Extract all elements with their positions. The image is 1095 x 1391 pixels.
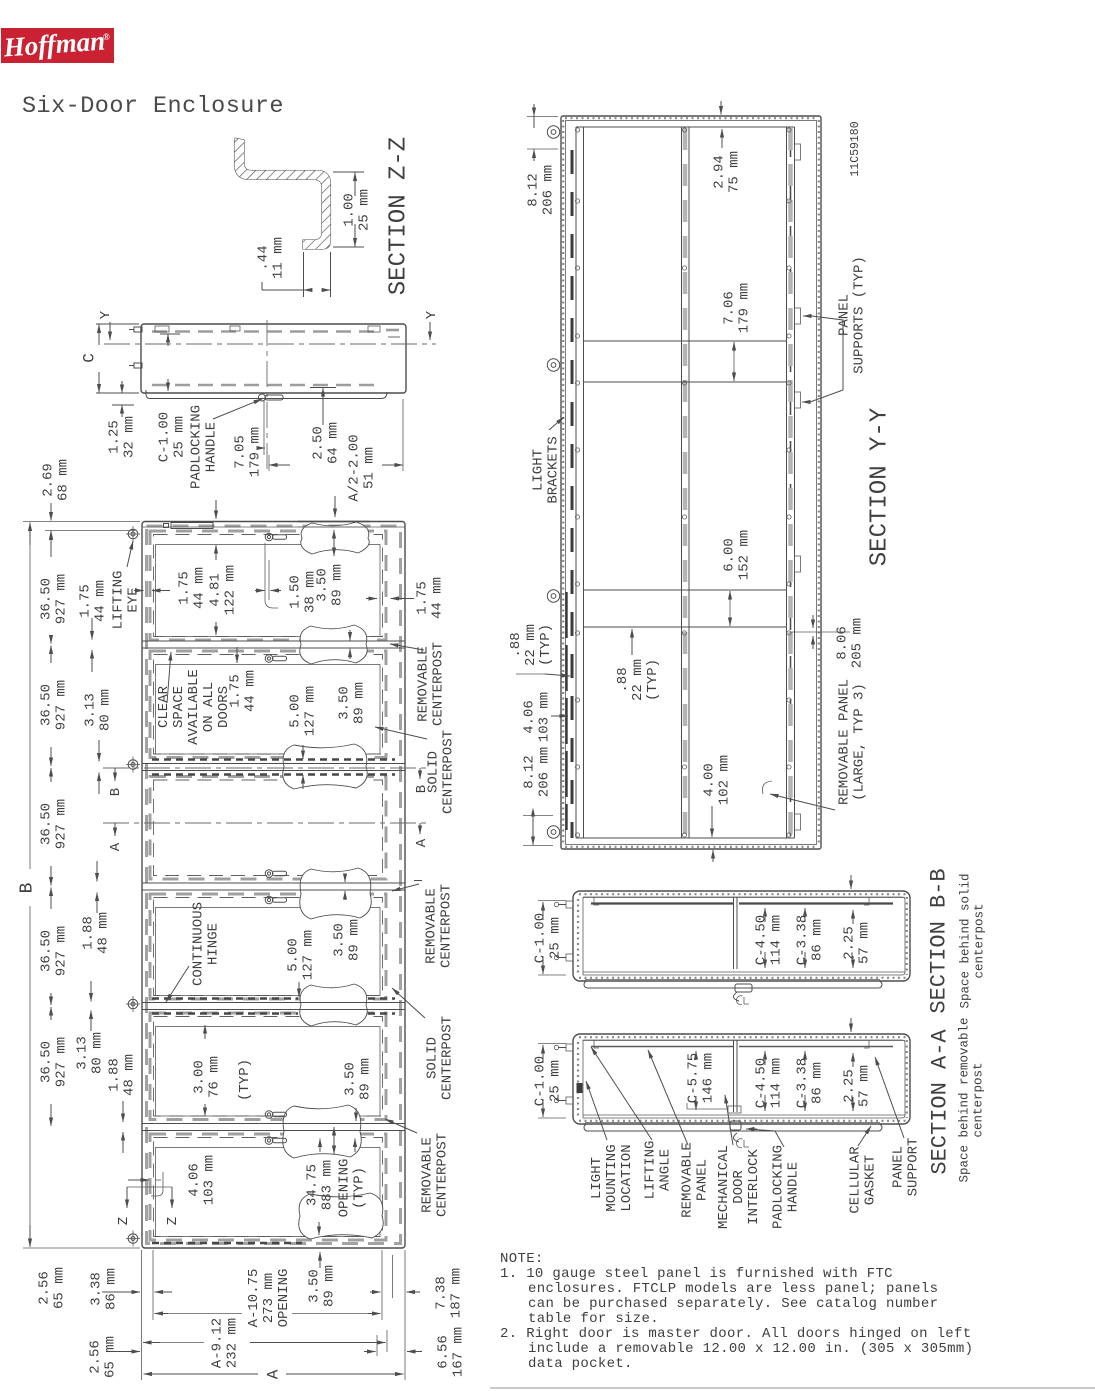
section Y-Y outer shell [561,116,821,849]
dim 5.00 127mm door2 arrows [302,745,304,759]
svg-text:PADLOCKING: PADLOCKING [770,1145,786,1229]
svg-text:MOUNTING: MOUNTING [604,1144,620,1211]
svg-text:DOOR: DOOR [731,1170,747,1204]
panel supports leader [810,390,843,402]
dim 2.25 BB line [852,910,854,924]
svg-text:SUPPORTS (TYP): SUPPORTS (TYP) [851,256,867,374]
svg-text:232 mm: 232 mm [224,1318,240,1368]
dim 3.00 76mm TYP text [191,1056,222,1098]
svg-text:include a removable 12.00 x 12: include a removable 12.00 x 12.00 in. (3… [528,1341,973,1357]
dim 2.25 57mm AA text [841,1065,872,1107]
dim 6.56 167mm text [435,1327,466,1377]
dim .88 22mm TYP inside text [615,659,661,701]
dim C-1.00 25mm text [156,412,187,462]
hinge / lifting eye circle top [128,529,138,539]
svg-text:51 mm: 51 mm [361,447,377,489]
svg-text:A: A [108,842,124,851]
section A-A panel support clip left [594,1040,599,1048]
dim C dimension line [98,325,100,346]
svg-text:57 mm: 57 mm [856,1065,872,1107]
dim C-3.38 86mm BB text [794,915,825,965]
svg-text:C-1.00: C-1.00 [156,412,172,462]
section A-A hinge pin upper [566,1044,573,1051]
section B-B left wall hatch [577,899,579,973]
section Y-Y left edge hatch [562,120,564,845]
svg-text:CONTINUOUS: CONTINUOUS [190,902,206,986]
svg-text:BRACKETS: BRACKETS [545,436,561,503]
dim 3.50 89mm door2 text [336,682,367,724]
lifting eye slot top [171,523,213,529]
svg-text:EYE: EYE [125,587,141,612]
svg-text:REMOVABLE PANEL: REMOVABLE PANEL [836,679,852,805]
dim A-9.12 line [143,1342,160,1344]
mechanical interlock leader [725,1095,733,1145]
dim 7.06 arrows [733,342,735,352]
section Z-Z dim text .44 11mm [255,237,286,279]
door 6 dashed perimeter [150,1134,386,1240]
section A-A centerline symbol [736,1139,742,1148]
section A-A title [928,1029,953,1175]
dim 2.94 75mm text [711,151,742,193]
svg-text:2.25: 2.25 [841,926,857,960]
clear space leader [167,652,171,703]
removable centerpost leader 3 [385,1119,417,1133]
padlocking handle leader [213,399,262,419]
hinge / lifting eye circle bottom [128,1234,138,1244]
svg-text:PADLOCKING: PADLOCKING [188,405,204,489]
section Z-Z dim .44 11mm dimension line [262,289,304,291]
svg-text:A/2-2.00: A/2-2.00 [346,434,362,501]
svg-text:36.50: 36.50 [38,930,54,972]
part number 11C59180 [849,121,862,176]
dim 1.50 38mm text [287,571,318,613]
svg-text:C-1.00: C-1.00 [532,913,548,963]
padlocking handle AA label [770,1145,801,1229]
dim 2.69 68mm text [40,459,71,501]
dim 5.00 127mm door2 text [287,686,318,736]
svg-text:167 mm: 167 mm [450,1327,466,1377]
quarter-turn latch door3 [265,870,273,878]
dim 2.25 AA line [852,1053,854,1067]
svg-text:INTERLOCK: INTERLOCK [746,1149,762,1225]
dim 36.50 927mm segment 1 line [50,531,52,558]
B cut label left [114,768,116,781]
section Y-Y panel support tabs [795,144,801,160]
light brackets label [530,436,561,503]
section A-A hinge pin lower [566,1097,573,1104]
section Y-Y crossbar 2 top [584,589,787,591]
svg-text:CELLULAR: CELLULAR [847,1146,863,1214]
svg-text:table for size.: table for size. [528,1311,659,1327]
dim C-3.38 BB line [804,908,806,922]
section Y-Y crossbar 1 bottom [584,381,787,383]
svg-text:C-3.38: C-3.38 [794,1058,810,1108]
svg-text:44 mm: 44 mm [242,670,258,712]
band4 centerpost hatch left [152,997,298,999]
door 5 dashed perimeter [150,1013,386,1120]
svg-text:3.50: 3.50 [336,686,352,720]
svg-text:3.50: 3.50 [306,1269,322,1303]
svg-text:76 mm: 76 mm [206,1056,222,1098]
svg-text:89 mm: 89 mm [357,1058,373,1100]
section A-A bottom rail [583,1114,905,1116]
svg-text:2. Right door is master door.: 2. Right door is master door. All doors … [500,1326,972,1342]
section B-B outer shell [573,891,910,981]
door 4 dashed perimeter [150,894,386,999]
section Y-Y mid rail gray dash [683,128,688,838]
section Z-Z cut marker [127,1186,172,1188]
svg-text:SOLID: SOLID [425,751,441,793]
bottom ext line opening right [381,1250,383,1320]
dim 4.00 102mm text [701,755,732,805]
removable centerpost leader 2 [414,880,422,882]
bottom extension line [23,1247,140,1249]
dim 7.05 179mm line [258,447,265,449]
dim 7.05 179mm text [232,427,263,477]
dim .88 outside bracket [516,673,545,675]
svg-text:(TYP): (TYP) [645,659,661,701]
section A-A door flange [584,1124,882,1131]
svg-text:SUPPORT: SUPPORT [905,1138,921,1197]
dim 36.50 927mm segment 3 text [38,799,69,849]
svg-text:22 mm: 22 mm [630,659,646,701]
dim C-1.00 25mm dimension line [167,334,169,346]
light bracket circle 2 [547,359,559,371]
svg-text:927 mm: 927 mm [53,926,69,976]
svg-text:205 mm: 205 mm [849,618,865,668]
section Y-Y mullion line b [583,127,585,838]
dim C-5.75 146mm text [685,1053,716,1103]
dim 3.50 89mm door2 arrows [349,630,351,641]
dim .88 inside bracket [631,629,633,655]
panel support label [890,1138,921,1197]
break blob door1 top [301,522,370,554]
svg-text:89 mm: 89 mm [321,1265,337,1307]
svg-text:LIGHT: LIGHT [530,449,546,491]
section B-B right wall hatch [906,897,908,975]
svg-text:25 mm: 25 mm [547,1060,563,1102]
svg-text:8.12: 8.12 [525,173,541,207]
svg-text:8.06: 8.06 [834,626,850,660]
svg-text:CENTERPOST: CENTERPOST [439,1016,455,1100]
svg-text:75 mm: 75 mm [726,151,742,193]
svg-text:103 mm: 103 mm [201,1155,217,1205]
section A-A top wall hatch [579,1036,906,1038]
section A-A left wall hatch [577,1042,579,1116]
dim 6.00 arrows [729,591,731,600]
svg-text:REMOVABLE: REMOVABLE [679,1142,695,1218]
svg-text:1. 10 gauge steel panel is fur: 1. 10 gauge steel panel is furnished wit… [500,1266,893,1282]
svg-text:C-3.38: C-3.38 [794,915,810,965]
band4 centerpost hatch right [368,997,395,999]
section B-B panel support clip right [864,897,869,905]
svg-text:4.81: 4.81 [207,573,223,607]
svg-text:1.50: 1.50 [287,575,303,609]
section A-A panel band right [739,1046,893,1048]
svg-text:1.75: 1.75 [77,584,93,618]
svg-text:36.50: 36.50 [38,803,54,845]
hinge / lifting eye circle band4 [128,999,138,1009]
solid centerpost label 2 [424,1016,455,1100]
svg-text:80 mm: 80 mm [89,1032,105,1074]
svg-text:C: C [81,353,99,363]
svg-text:CENTERPOST: CENTERPOST [440,730,456,814]
padlocking handle label [188,405,219,489]
Y cut label right [424,310,440,319]
svg-text:4.00: 4.00 [701,763,717,797]
dim 8.12 bottom line [532,816,534,845]
break blob band2 [283,744,368,789]
dim .88 22mm TYP outside text [508,624,554,666]
solid centerpost label 1 [425,730,456,814]
svg-text:152 mm: 152 mm [736,530,752,580]
door separator bar 2 [142,763,405,765]
svg-text:1.88: 1.88 [80,916,96,950]
section Y-Y cut line [104,343,436,345]
plan view outer body [141,324,406,393]
svg-text:86 mm: 86 mm [103,1268,119,1310]
svg-text:25 mm: 25 mm [547,917,563,959]
section B-B top wall hatch [579,893,906,895]
svg-text:C-4.50: C-4.50 [753,915,769,965]
dim C-1.00 AA line [542,1045,544,1063]
dim A/2-2.00 51mm line [269,464,290,466]
svg-text:1.25: 1.25 [106,420,122,454]
dim 3.13 80mm text [82,689,113,731]
svg-text:64 mm: 64 mm [325,422,341,464]
dim C label [81,353,99,363]
svg-text:SECTION B-B: SECTION B-B [927,868,952,1013]
svg-text:LOCATION: LOCATION [619,1144,635,1211]
section B-B top-right arrow [850,875,852,889]
svg-text:5.00: 5.00 [285,938,301,972]
svg-text:A: A [265,1369,283,1379]
dim 36.50 927mm segment 3 line [50,768,52,782]
dim C-4.50 BB line [764,908,766,922]
dim 1.88 48mm first text [80,912,111,954]
svg-text:Y: Y [424,310,440,319]
dim 8.06 205mm text [834,618,865,668]
section B-B panel support clip left [594,897,599,905]
hinge / lifting eye circle band2 [128,760,138,770]
light bracket circle 3 [547,590,559,602]
svg-text:Z: Z [165,1217,181,1225]
dim 4.00 arrows [711,806,713,837]
svg-text:ANGLE: ANGLE [657,1149,673,1191]
continuous hinge label [190,902,221,986]
dim A overall label [265,1369,283,1379]
svg-text:36.50: 36.50 [38,684,54,726]
svg-text:1.75: 1.75 [227,674,243,708]
dim 34.75 883mm opening text [304,1160,335,1210]
svg-text:3.50: 3.50 [331,923,347,957]
hoffman logo red panel [1,28,114,63]
svg-text:44 mm: 44 mm [191,567,207,609]
door 2 dashed perimeter [150,651,386,758]
section A-A panel band left [591,1046,733,1048]
door 2 inner dashed gasket [154,655,383,755]
section Y-Y bolt circles [575,128,579,132]
door1 top ext arrows [215,500,217,519]
bottom ext line opening left [152,1250,154,1320]
door separator bar 1 [142,640,405,642]
removable centerpost label 3 [419,1133,450,1217]
dim 1.75 44mm left arrows [91,618,93,640]
dim 8.12 206mm top line [533,116,535,128]
dim 1.88 48mm second text [106,1054,137,1096]
svg-text:7.05: 7.05 [232,435,248,469]
plan view small latch details [155,326,169,332]
removable centerpost label 2 [423,884,454,968]
dim 3.50 89mm door1 line [333,530,335,542]
svg-text:centerpost: centerpost [971,1062,985,1137]
lifting eye leader [127,541,133,567]
svg-text:B: B [17,882,37,893]
svg-text:114 mm: 114 mm [768,1058,784,1108]
svg-text:centerpost: centerpost [972,903,986,978]
svg-text:LIFTING: LIFTING [642,1141,658,1200]
section Y-Y top edge hatch [565,117,817,119]
svg-text:68 mm: 68 mm [55,459,71,501]
svg-text:86 mm: 86 mm [809,919,825,961]
svg-text:2.94: 2.94 [711,155,727,189]
svg-text:146 mm: 146 mm [700,1053,716,1103]
dim 4.06 103mm text [186,1155,217,1205]
break blob band3 [300,868,372,919]
section B-B hinge pin lower [566,954,573,961]
dim C-3.38 86mm AA text [794,1058,825,1108]
section A-A interlock rod [728,1106,741,1113]
section A-A centerpost divider [733,1040,735,1112]
svg-text:MECHANICAL: MECHANICAL [716,1145,732,1229]
section Y-Y crossbar 1 top [584,340,787,342]
dim 36.50 927mm segment 4 text [38,926,69,976]
clear space label [156,669,232,745]
dim 3.13 80mm arrows [98,740,100,762]
light mounting location label [589,1144,635,1211]
svg-text:4.06: 4.06 [186,1163,202,1197]
svg-text:SPACE: SPACE [171,686,187,728]
svg-text:AVAILABLE: AVAILABLE [186,669,202,745]
section A-A outer shell [573,1034,910,1124]
svg-text:127 mm: 127 mm [300,930,316,980]
door 5 inner panel rect [156,1027,381,1117]
hinge pivot extension line [45,530,135,532]
removable panel leader [790,799,835,810]
door separator bar 4 [142,1002,405,1004]
dim 1.75 44mm right arrows [366,598,377,600]
svg-text:114 mm: 114 mm [768,915,784,965]
dim C-1.00 BB line [542,902,544,920]
svg-text:Space behind removable: Space behind removable [957,1017,971,1182]
svg-text:3.00: 3.00 [191,1060,207,1094]
section B-B panel dark band left [591,902,733,904]
break blob band4 [300,984,368,1026]
svg-text:HANDLE: HANDLE [785,1162,801,1212]
break blob bottom door [299,1193,384,1239]
plan view door gap centerline [266,320,268,472]
space behind solid centerpost note [958,873,986,1008]
svg-text:1.75: 1.75 [414,581,430,615]
section A-A left wall inner [582,1040,584,1118]
svg-text:25 mm: 25 mm [356,189,372,231]
section Y-Y wall long-dash [565,592,567,830]
space behind removable centerpost note [957,1017,985,1182]
section B-B hinge pin upper [566,901,573,908]
svg-text:CLEAR: CLEAR [156,685,172,728]
svg-text:OPENING: OPENING [336,1159,352,1218]
A cut label left [114,823,116,836]
dim 1.88 48mm first arrows [96,861,98,882]
svg-text:1.00: 1.00 [341,193,357,227]
bottom ext line left edge [141,1250,143,1380]
svg-text:3.13: 3.13 [74,1036,90,1070]
quarter-turn latch door4 [265,896,273,904]
svg-text:(TYP): (TYP) [351,1167,367,1209]
svg-text:Z: Z [116,1217,132,1225]
svg-text:122 mm: 122 mm [222,565,238,615]
dim A/2-2.00 51mm text [346,434,377,501]
svg-text:89 mm: 89 mm [346,919,362,961]
svg-text:11 mm: 11 mm [270,237,286,279]
lifting angle leader [591,1047,652,1140]
dim 4.81 122mm text [207,565,238,615]
section Y-Y mullion line a [575,127,577,838]
section B-B panel dark band right [739,902,893,904]
dim 3.50 89mm bottom text [306,1265,337,1307]
dim 36.50 927mm segment 5 text [38,1037,69,1087]
svg-text:206 mm: 206 mm [540,165,556,215]
section Z-Z dim text 1.00 25mm [341,189,372,231]
svg-text:1.88: 1.88 [106,1058,122,1092]
svg-text:C-5.75: C-5.75 [685,1053,701,1103]
door 2 inner panel rect [156,665,381,755]
quarter-turn latch door2 [265,655,273,663]
svg-text:HANDLE: HANDLE [203,422,219,472]
section Y-Y bottom interior rail [576,837,795,839]
svg-text:Y: Y [98,310,114,319]
light brackets leader [549,417,564,430]
dim 2.50 64mm line [322,388,324,412]
dim 2.56 65mm second arrow [110,1351,140,1353]
dim 8.06 line [812,615,814,628]
svg-text:.88: .88 [508,632,524,657]
dim 36.50 927mm segment 4 line [50,888,52,910]
front view top edge re-stroke [298,521,370,523]
bottom ext line right edge [404,1250,406,1380]
mechanical door interlock label [716,1145,762,1229]
section Y-Y shell inner wall [566,121,817,845]
svg-text:HINGE: HINGE [205,923,221,965]
section Z-Z dim 1.00 25mm extension lines [333,171,364,173]
svg-text:7.06: 7.06 [721,291,737,325]
dim 4.81 122mm arrows [215,545,217,560]
svg-text:22 mm: 22 mm [523,624,539,666]
svg-text:103 mm: 103 mm [536,692,552,742]
svg-text:2.25: 2.25 [841,1069,857,1103]
door6 bottom sill hatch [152,1242,302,1244]
dim C-1.00 25mm AA text [532,1056,563,1106]
dim 1.88 48mm second arrows [122,1101,124,1122]
dim 4.06 yy arrow [551,715,568,717]
front view outer gasket dashed frame [147,526,401,1244]
dim 3.50 89mm door4 text [331,919,362,961]
section A-A top rail [583,1040,905,1042]
svg-text:927 mm: 927 mm [53,574,69,624]
overall height dim B label [17,882,37,893]
light bracket circle 4 [547,826,559,838]
svg-text:SECTION Y-Y: SECTION Y-Y [866,408,893,566]
